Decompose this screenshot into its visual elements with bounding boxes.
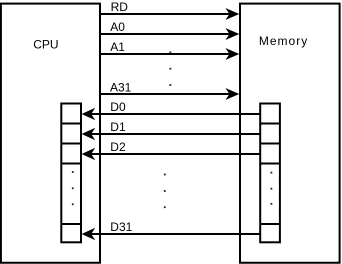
wire D2 [88, 153, 261, 155]
svg-text:D1: D1 [110, 120, 126, 134]
svg-text:A0: A0 [110, 20, 125, 34]
wire A0 [100, 33, 231, 35]
svg-text:D2: D2 [110, 140, 126, 154]
svg-text:CPU: CPU [33, 38, 58, 52]
arrowhead D2 [82, 148, 96, 160]
wire D1 [88, 133, 261, 135]
arrowhead A31 [225, 88, 239, 100]
arrowhead D1 [82, 128, 96, 140]
arrowhead A1 [225, 48, 239, 60]
address ellipsis dots [169, 52, 171, 86]
wire D31 [88, 233, 261, 235]
svg-text:A1: A1 [110, 40, 125, 54]
arrowhead A0 [225, 28, 239, 40]
arrowhead D0 [82, 108, 96, 120]
arrowhead RD [225, 8, 239, 20]
svg-text:D31: D31 [110, 220, 132, 234]
CPU box [1, 4, 100, 263]
wire RD [100, 13, 231, 15]
wire A31 [100, 93, 231, 95]
svg-text:Memory: Memory [259, 34, 308, 48]
arrowhead D31 [82, 228, 96, 240]
Memory register stack [260, 104, 280, 243]
CPU register stack [61, 104, 81, 243]
Memory box [240, 4, 340, 263]
Memory stack ellipsis dots [271, 172, 273, 205]
wire A1 [100, 53, 231, 55]
svg-text:D0: D0 [110, 100, 126, 114]
wire D0 [88, 113, 261, 115]
svg-text:A31: A31 [110, 80, 132, 94]
CPU stack ellipsis dots [72, 171, 74, 205]
data bus ellipsis dots [164, 174, 166, 209]
svg-text:RD: RD [111, 0, 129, 14]
